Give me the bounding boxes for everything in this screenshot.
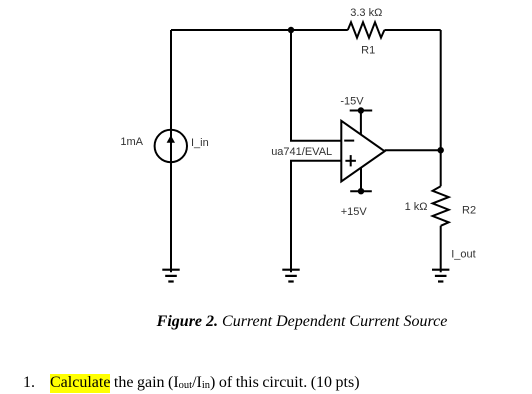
op-amp U1 <box>341 121 384 182</box>
svg-text:ua741/EVAL: ua741/EVAL <box>271 146 332 158</box>
svg-text:R1: R1 <box>361 45 375 57</box>
svg-text:+15V: +15V <box>341 206 368 218</box>
junction node top <box>288 27 294 33</box>
question text <box>23 374 360 392</box>
wire plus input to ground <box>291 161 341 272</box>
wire top left <box>171 29 348 31</box>
ground 3 <box>432 270 449 282</box>
svg-text:I_in: I_in <box>191 137 209 149</box>
wire top right <box>384 29 440 31</box>
wire right vertical lower <box>440 226 442 272</box>
power pin +15V <box>350 168 372 192</box>
op-amp minus sign <box>344 140 354 142</box>
svg-text:1mA: 1mA <box>120 136 143 148</box>
svg-text:3.3 kΩ: 3.3 kΩ <box>350 7 382 19</box>
wire left vertical <box>170 30 172 272</box>
op-amp plus sign <box>345 155 356 166</box>
junction node output <box>438 147 444 153</box>
wire right vertical upper <box>440 30 442 186</box>
current source I_in <box>155 130 187 162</box>
caption Figure 2 <box>36 313 532 331</box>
svg-text:R2: R2 <box>462 205 476 217</box>
wire mid vertical upper <box>291 30 341 141</box>
svg-text:-15V: -15V <box>340 95 364 107</box>
ground 2 <box>282 270 299 282</box>
power pin -15V <box>350 111 373 135</box>
ground 1 <box>162 270 179 282</box>
svg-text:I_out: I_out <box>451 248 475 260</box>
current source arrow <box>167 135 175 143</box>
resistor R2 <box>433 186 449 226</box>
resistor R1 <box>348 22 385 37</box>
svg-text:1 kΩ: 1 kΩ <box>405 201 428 213</box>
wire output <box>385 149 441 151</box>
